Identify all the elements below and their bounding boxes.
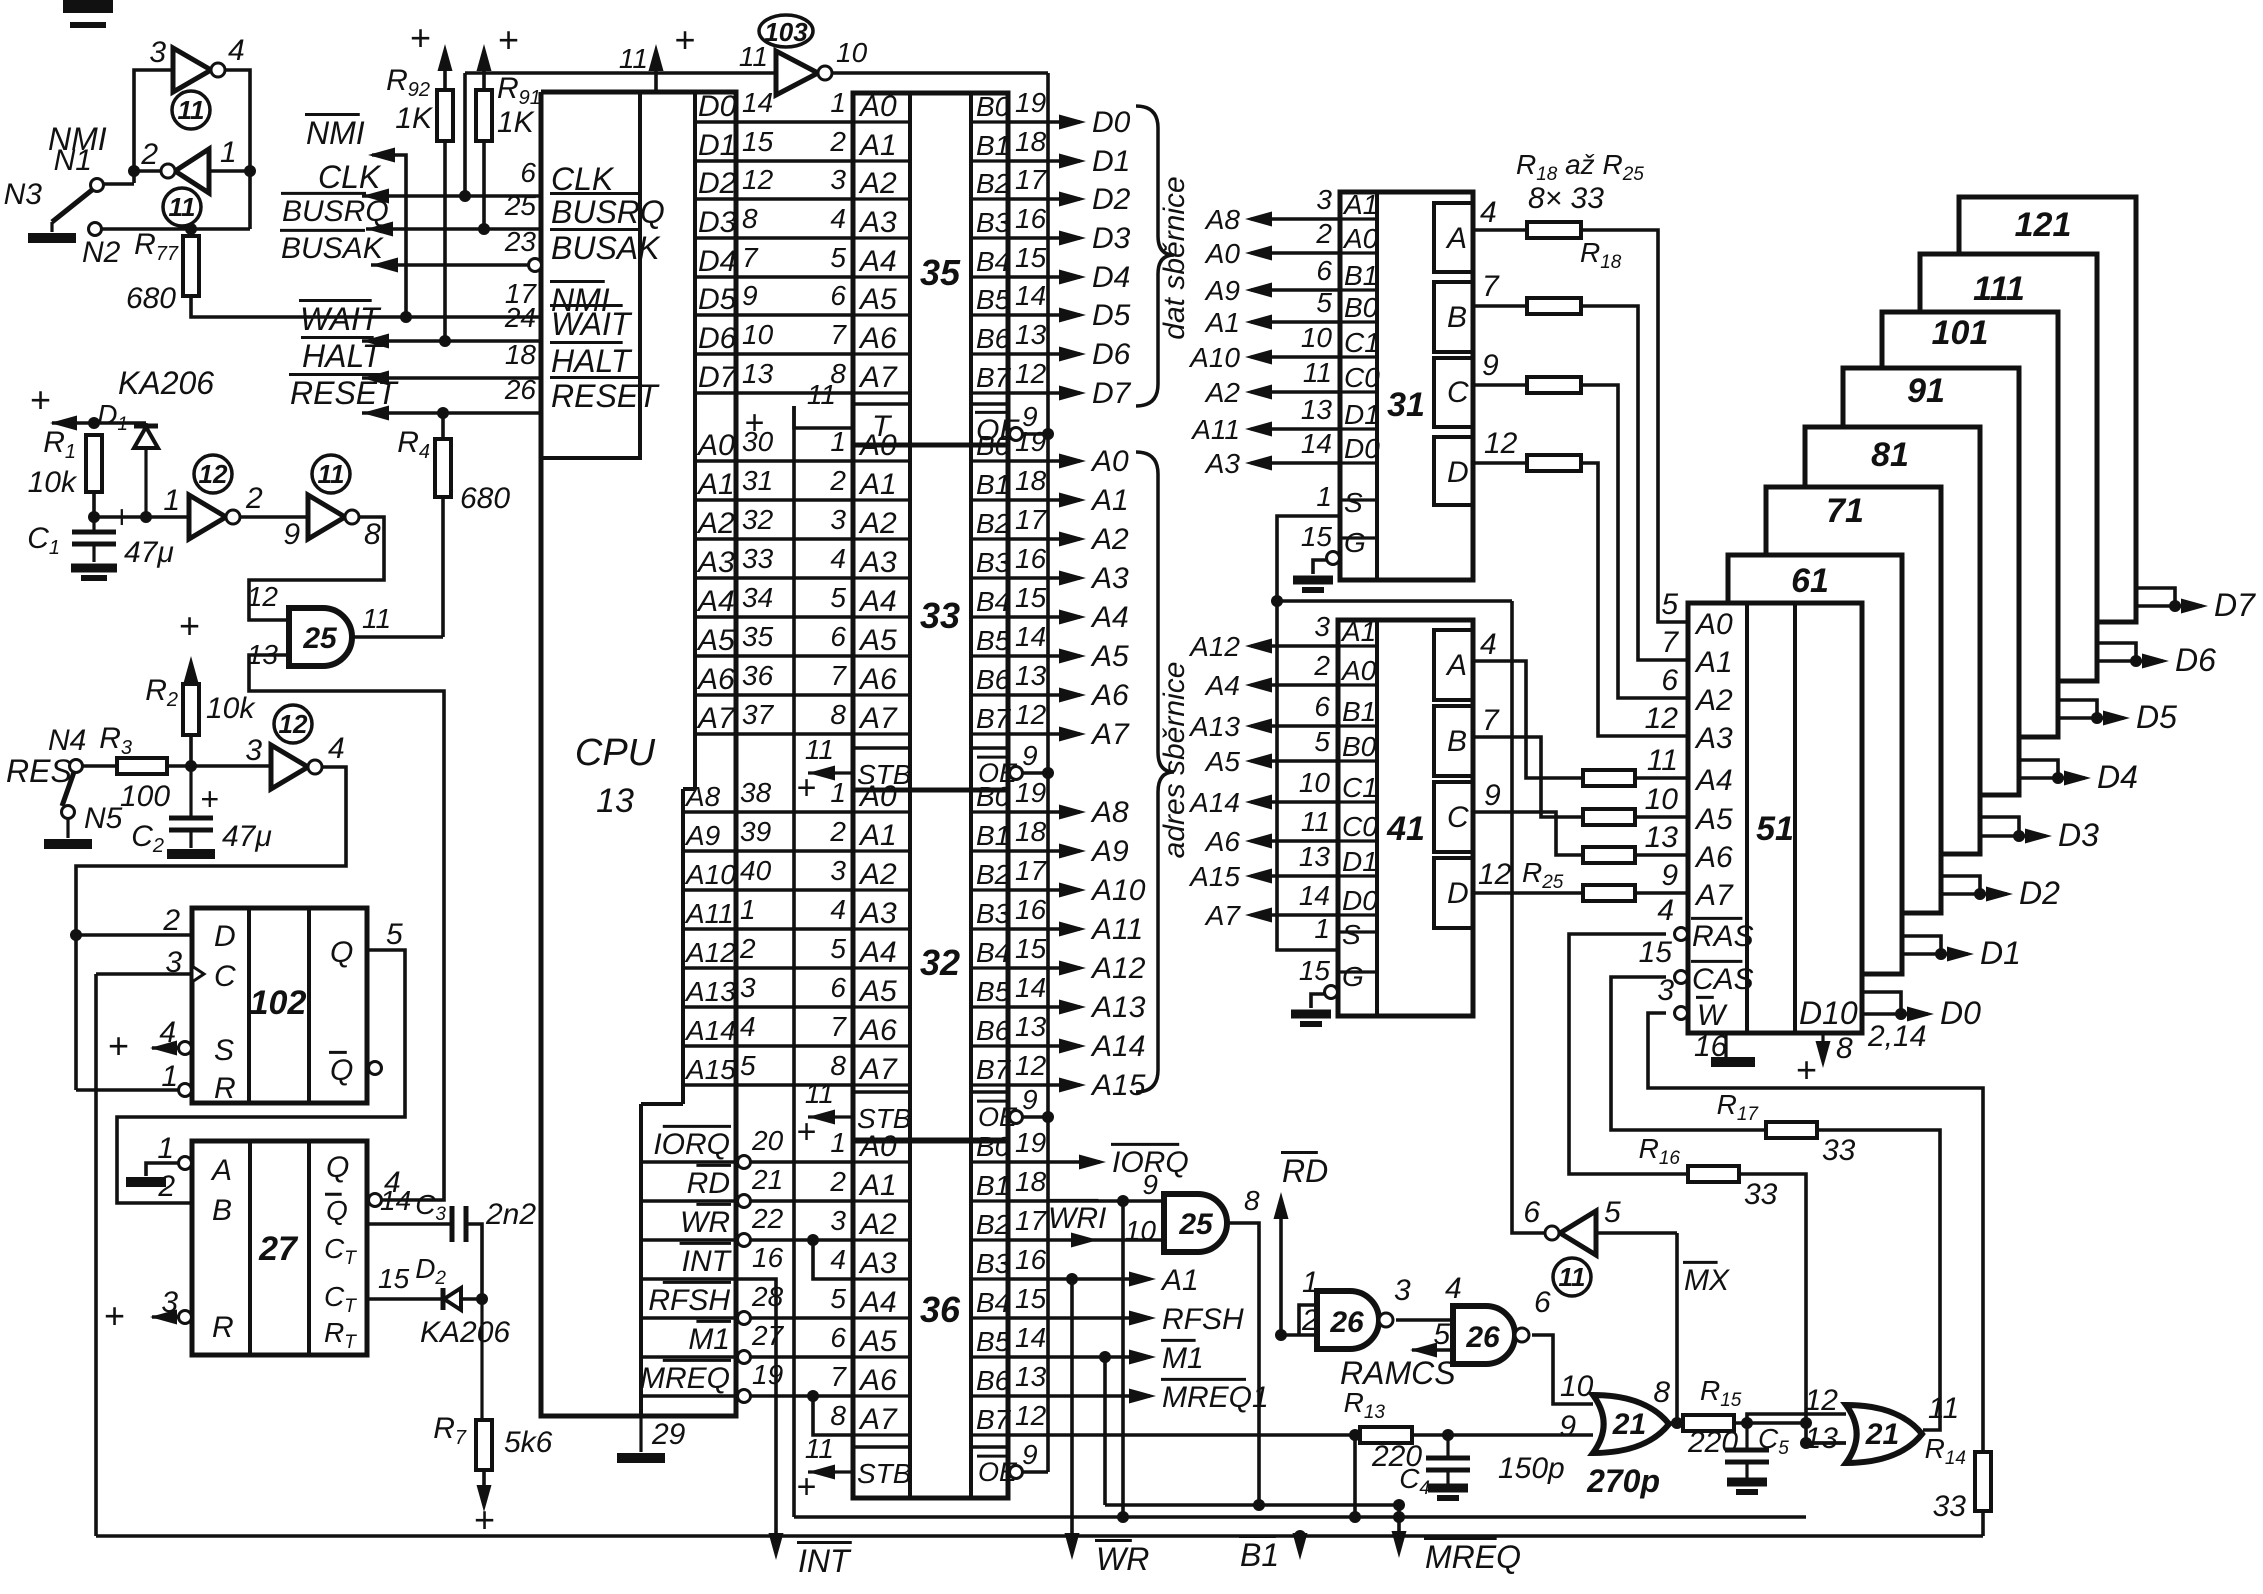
capacitor C1 47u <box>92 517 95 532</box>
DRAM chip 51 box <box>1688 603 1862 1033</box>
svg-text:9: 9 <box>1484 779 1501 812</box>
svg-text:A2: A2 <box>1204 377 1241 408</box>
svg-text:D0: D0 <box>1344 433 1380 464</box>
svg-text:A1: A1 <box>1090 484 1129 517</box>
svg-text:A1: A1 <box>1694 646 1733 679</box>
wire addr CPU to buffer 33 <box>736 498 853 502</box>
svg-text:S: S <box>1344 487 1363 518</box>
svg-text:11: 11 <box>1559 1262 1586 1292</box>
svg-text:N4: N4 <box>48 724 86 757</box>
svg-text:5: 5 <box>740 1050 756 1081</box>
wire CLK to inverter 103 vertical <box>463 73 467 196</box>
svg-text:5: 5 <box>830 582 846 613</box>
wire data output D5 <box>2058 700 2097 718</box>
svg-text:G: G <box>1344 527 1366 558</box>
resistor R7 5k6 <box>480 1299 483 1420</box>
svg-text:A5: A5 <box>858 1325 897 1358</box>
svg-text:A3: A3 <box>696 546 735 579</box>
wire OE enable vertical <box>1046 73 1050 1472</box>
svg-text:3: 3 <box>740 972 756 1003</box>
svg-text:31: 31 <box>742 465 773 496</box>
svg-text:1: 1 <box>830 777 846 808</box>
svg-text:11: 11 <box>739 41 768 72</box>
svg-text:A12: A12 <box>1090 952 1146 985</box>
wire addr CPU to buffer 32 <box>733 849 853 853</box>
svg-text:A7: A7 <box>858 1053 898 1086</box>
svg-text:T: T <box>872 410 893 443</box>
svg-text:2: 2 <box>829 465 846 496</box>
svg-text:680: 680 <box>460 482 510 515</box>
svg-text:8: 8 <box>364 518 381 551</box>
svg-text:11: 11 <box>805 1433 834 1464</box>
svg-text:D0: D0 <box>1940 995 1981 1031</box>
svg-text:1: 1 <box>1314 913 1330 944</box>
svg-text:A14: A14 <box>1090 1030 1145 1063</box>
svg-text:A7: A7 <box>1694 879 1734 912</box>
svg-text:B2: B2 <box>976 508 1011 539</box>
svg-text:13: 13 <box>1015 660 1047 691</box>
svg-text:6: 6 <box>1523 1196 1540 1229</box>
wire data CPU to buffer 35 <box>736 197 853 201</box>
svg-text:A7: A7 <box>696 702 736 735</box>
signal A15 wire <box>1251 874 1338 878</box>
bus buffer 36 box <box>853 1141 1008 1498</box>
svg-text:D0: D0 <box>1342 885 1378 916</box>
svg-text:+: + <box>796 1468 816 1506</box>
svg-text:6: 6 <box>1534 1286 1551 1319</box>
svg-text:9: 9 <box>1022 1084 1038 1115</box>
svg-text:B1: B1 <box>1342 696 1376 727</box>
wire output A8 <box>1008 810 1080 814</box>
svg-text:14: 14 <box>1299 880 1330 911</box>
svg-text:A4: A4 <box>1204 670 1240 701</box>
svg-text:D: D <box>1447 456 1469 489</box>
svg-text:7: 7 <box>830 1011 847 1042</box>
svg-text:+: + <box>1795 1049 1816 1090</box>
svg-text:16: 16 <box>1015 543 1047 574</box>
svg-text:+: + <box>796 1113 816 1151</box>
wire data CPU to buffer 35 <box>736 159 853 163</box>
supply pin 11 of CPU <box>654 52 658 92</box>
gate number circle 12 <box>274 705 312 743</box>
svg-text:13: 13 <box>1015 1361 1047 1392</box>
WRI output to AND 25 pin 10 <box>1008 1238 1164 1242</box>
svg-text:D7: D7 <box>698 361 738 394</box>
wire R7 bottom supply <box>482 1470 486 1504</box>
wire bottom rail <box>96 1534 1983 1538</box>
svg-text:A0: A0 <box>858 1130 897 1163</box>
gate number circle 12 <box>194 455 232 493</box>
wire output A0 <box>1008 459 1080 463</box>
svg-text:31: 31 <box>1387 386 1425 424</box>
signal A11 wire <box>1251 427 1340 431</box>
svg-text:A7: A7 <box>858 361 898 394</box>
svg-text:B3: B3 <box>976 1248 1011 1279</box>
svg-text:C0: C0 <box>1344 362 1380 393</box>
svg-text:680: 680 <box>126 282 176 315</box>
inverter 103 <box>776 51 818 95</box>
svg-text:4: 4 <box>830 203 846 234</box>
wire output A5 <box>1008 654 1080 658</box>
svg-text:100: 100 <box>120 780 170 813</box>
wire data output D4 <box>2019 760 2058 778</box>
svg-text:A5: A5 <box>1694 803 1733 836</box>
OR gate 21a (10,9 -> 8) <box>1593 1395 1669 1453</box>
svg-text:A0: A0 <box>1340 655 1377 686</box>
diode D2 KA206 <box>441 1288 446 1310</box>
svg-text:4: 4 <box>1445 1272 1462 1305</box>
svg-text:C: C <box>1447 801 1469 834</box>
CPU pin 29 ground <box>639 1416 642 1452</box>
svg-text:D6: D6 <box>2175 642 2216 678</box>
svg-text:71: 71 <box>1826 492 1864 530</box>
wire addr CPU to buffer 32 <box>733 1044 853 1048</box>
svg-text:RES: RES <box>6 753 72 789</box>
svg-text:36: 36 <box>742 660 774 691</box>
svg-text:adres sběrnice: adres sběrnice <box>1158 662 1191 859</box>
svg-text:7: 7 <box>830 660 847 691</box>
svg-text:28: 28 <box>751 1281 784 1312</box>
svg-text:A6: A6 <box>858 1364 897 1397</box>
svg-text:8: 8 <box>1244 1185 1260 1216</box>
wire addr CPU to buffer 32 <box>733 888 853 892</box>
signal A3 wire <box>1251 461 1340 465</box>
wire N2 row <box>101 227 250 231</box>
buffer 35 T cell <box>853 402 910 406</box>
capacitor C4 150p <box>1446 1435 1449 1458</box>
svg-text:D6: D6 <box>1092 338 1131 371</box>
svg-text:INT: INT <box>798 1543 852 1579</box>
svg-text:4: 4 <box>1657 894 1674 927</box>
wire output D2 <box>1008 197 1080 201</box>
svg-text:12: 12 <box>1645 702 1679 735</box>
svg-text:RFSH: RFSH <box>648 1284 730 1317</box>
svg-text:A4: A4 <box>858 585 897 618</box>
svg-text:D0: D0 <box>698 90 737 123</box>
wire output D0 <box>1008 120 1080 124</box>
svg-text:16: 16 <box>1015 1244 1047 1275</box>
DRAM chip 91 <box>1843 368 2019 795</box>
svg-text:220: 220 <box>1687 1426 1738 1459</box>
svg-text:B3: B3 <box>976 898 1011 929</box>
svg-text:A2: A2 <box>858 1208 897 1241</box>
svg-text:15: 15 <box>1015 1283 1047 1314</box>
svg-text:A13: A13 <box>1090 991 1146 1024</box>
svg-text:5: 5 <box>830 242 846 273</box>
svg-text:14: 14 <box>1015 280 1046 311</box>
resistor R13 220 <box>1360 1427 1412 1443</box>
svg-text:1: 1 <box>1316 481 1332 512</box>
wire data output D3 <box>1980 817 2019 836</box>
svg-text:18: 18 <box>1015 465 1047 496</box>
svg-text:81: 81 <box>1871 436 1909 474</box>
svg-text:15: 15 <box>1015 933 1047 964</box>
svg-text:IORQ: IORQ <box>653 1128 730 1161</box>
svg-text:16: 16 <box>1015 203 1047 234</box>
svg-text:RESET: RESET <box>551 378 660 414</box>
wire addr CPU to buffer 33 <box>736 615 853 619</box>
svg-text:2: 2 <box>829 816 846 847</box>
svg-text:15: 15 <box>378 1263 410 1294</box>
svg-text:A14: A14 <box>1188 787 1240 818</box>
svg-text:102: 102 <box>250 984 307 1022</box>
wire output A9 <box>1008 849 1080 853</box>
svg-text:7: 7 <box>1482 270 1500 303</box>
wire output D6 <box>1008 352 1080 356</box>
svg-text:37: 37 <box>742 699 775 730</box>
svg-text:12: 12 <box>247 581 279 612</box>
svg-text:B: B <box>212 1194 232 1227</box>
svg-text:A12: A12 <box>1188 631 1240 662</box>
svg-text:RESET: RESET <box>290 375 399 411</box>
wire data CPU to buffer 35 <box>736 275 853 279</box>
svg-text:D7: D7 <box>2214 587 2256 623</box>
svg-text:2: 2 <box>162 904 180 937</box>
svg-text:RFSH: RFSH <box>1162 1303 1244 1336</box>
buffer 36 STB cell <box>853 1445 910 1449</box>
wire R16 to R15 node <box>1739 1174 1846 1443</box>
svg-text:A11: A11 <box>684 898 734 929</box>
svg-text:A15: A15 <box>1090 1069 1146 1102</box>
svg-text:CLK: CLK <box>551 161 615 197</box>
svg-text:13: 13 <box>1301 394 1333 425</box>
svg-text:+: + <box>497 19 518 60</box>
svg-text:6: 6 <box>830 1322 846 1353</box>
svg-text:INT: INT <box>682 1245 733 1278</box>
wire M1 to buffer <box>750 1355 853 1359</box>
svg-text:21: 21 <box>1612 1408 1646 1441</box>
svg-text:33: 33 <box>1933 1490 1967 1523</box>
svg-text:27: 27 <box>751 1320 785 1351</box>
buffer 32 STB cell <box>853 1090 910 1094</box>
svg-text:B5: B5 <box>976 284 1011 315</box>
svg-text:A3: A3 <box>1090 562 1129 595</box>
svg-text:47μ: 47μ <box>222 820 272 853</box>
svg-text:A2: A2 <box>858 858 897 891</box>
wire addr CPU to buffer 32 <box>733 1005 853 1009</box>
svg-text:8: 8 <box>830 1400 846 1431</box>
ground of N5 <box>44 839 92 849</box>
svg-text:WAIT: WAIT <box>551 306 633 342</box>
svg-text:N2: N2 <box>82 236 121 269</box>
svg-text:+: + <box>103 1295 124 1336</box>
svg-text:RD: RD <box>687 1167 730 1200</box>
svg-text:29: 29 <box>651 1418 686 1451</box>
signal A7 wire <box>1251 913 1338 917</box>
svg-text:MX: MX <box>1684 1264 1730 1297</box>
inverter 11d (6-5) <box>1560 1211 1596 1255</box>
svg-text:MREQ: MREQ <box>640 1362 730 1395</box>
RFSH output <box>1008 1316 1150 1320</box>
svg-text:A0: A0 <box>1342 223 1379 254</box>
svg-text:A4: A4 <box>858 1286 897 1319</box>
svg-text:2: 2 <box>829 126 846 157</box>
svg-text:12: 12 <box>1015 699 1047 730</box>
svg-text:A2: A2 <box>858 507 897 540</box>
svg-text:11: 11 <box>619 43 648 74</box>
svg-text:14: 14 <box>380 1185 411 1216</box>
svg-text:M1: M1 <box>1162 1342 1204 1375</box>
OR gate 21b (12,13 -> 11) <box>1846 1405 1922 1463</box>
wire addr CPU to buffer 33 <box>736 654 853 658</box>
svg-text:HALT: HALT <box>302 338 384 374</box>
svg-text:8: 8 <box>830 1050 846 1081</box>
wire OE pin <box>1023 432 1048 436</box>
signal A12 wire <box>1251 644 1338 648</box>
svg-text:A2: A2 <box>1694 684 1733 717</box>
svg-text:40: 40 <box>740 855 772 886</box>
wire left frame vertical <box>94 974 98 1536</box>
svg-text:KA206: KA206 <box>118 365 214 401</box>
svg-text:10: 10 <box>1645 783 1679 816</box>
svg-text:CLK: CLK <box>318 159 382 195</box>
svg-text:+: + <box>473 1499 494 1540</box>
svg-text:D1: D1 <box>1342 846 1378 877</box>
svg-text:15: 15 <box>1639 936 1673 969</box>
FF102 Q-bar stub <box>369 1062 382 1075</box>
buffer 33 STB cell <box>853 746 910 750</box>
svg-text:12: 12 <box>1478 858 1512 891</box>
svg-text:A4: A4 <box>1090 601 1129 634</box>
svg-text:B7: B7 <box>976 703 1012 734</box>
wire addr CPU to buffer 33 <box>736 576 853 580</box>
wire mux S select line <box>1277 599 1512 603</box>
svg-text:A1: A1 <box>858 468 897 501</box>
wire inverter 11d input from MX <box>1596 1231 1677 1235</box>
svg-text:C: C <box>1447 376 1469 409</box>
svg-text:NMI: NMI <box>48 121 107 157</box>
svg-text:1: 1 <box>220 136 237 169</box>
svg-text:10: 10 <box>1560 1370 1594 1403</box>
svg-text:9: 9 <box>1142 1169 1158 1200</box>
svg-text:21: 21 <box>751 1164 783 1195</box>
wire B7 junction down <box>1353 1435 1357 1517</box>
svg-text:S: S <box>1342 919 1361 950</box>
wire addr CPU to buffer 33 <box>736 537 853 541</box>
svg-text:D5: D5 <box>1092 299 1131 332</box>
capacitor C2 47u <box>189 766 192 818</box>
svg-text:A5: A5 <box>858 975 897 1008</box>
svg-text:9: 9 <box>1022 401 1038 432</box>
svg-text:N5: N5 <box>84 802 123 835</box>
wire NAND 26a out to 26b in 4 <box>1396 1318 1453 1322</box>
svg-text:5: 5 <box>386 918 403 951</box>
CPU left label box <box>541 92 640 458</box>
svg-text:Q: Q <box>330 936 353 969</box>
svg-text:39: 39 <box>740 816 771 847</box>
wire data output D2 <box>1941 876 1980 894</box>
svg-text:35: 35 <box>742 621 774 652</box>
svg-text:5: 5 <box>1433 1318 1450 1351</box>
signal A6 wire <box>1251 839 1338 843</box>
svg-text:STB: STB <box>857 759 911 790</box>
svg-text:A3: A3 <box>858 1247 897 1280</box>
svg-text:16: 16 <box>1015 894 1047 925</box>
wire data CPU to buffer 35 <box>736 236 853 240</box>
svg-text:dat sběrnice: dat sběrnice <box>1158 176 1191 339</box>
node N5 <box>62 806 75 819</box>
DRAM chip 61 <box>1728 555 1902 974</box>
svg-text:3: 3 <box>830 855 846 886</box>
svg-text:18: 18 <box>505 339 537 370</box>
svg-text:35: 35 <box>920 252 961 293</box>
svg-text:A5: A5 <box>696 624 735 657</box>
svg-text:34: 34 <box>742 582 773 613</box>
buffer 32 STB arrow <box>808 1115 853 1118</box>
svg-text:2: 2 <box>739 933 756 964</box>
wire addr CPU to buffer 33 <box>736 693 853 697</box>
svg-text:A15: A15 <box>1188 861 1240 892</box>
signal A9 wire <box>1251 288 1340 292</box>
svg-text:4: 4 <box>328 732 345 765</box>
svg-text:B6: B6 <box>976 664 1011 695</box>
svg-text:+: + <box>200 781 219 817</box>
wire ctrl CPU to buffer 36 <box>750 1238 853 1242</box>
svg-text:A1: A1 <box>1204 307 1240 338</box>
inverter 12b (pins 3-4) <box>271 745 308 789</box>
svg-text:RAMCS: RAMCS <box>1340 1355 1456 1391</box>
wire addr CPU to buffer 32 <box>733 810 853 814</box>
resistor R4 680 <box>441 437 445 441</box>
svg-text:A11: A11 <box>1190 414 1240 445</box>
svg-text:A7: A7 <box>1090 718 1130 751</box>
svg-text:5: 5 <box>1316 287 1332 318</box>
bus buffer 35 box <box>853 93 1008 445</box>
wire output D1 <box>1008 159 1080 163</box>
svg-text:N3: N3 <box>4 178 43 211</box>
svg-text:32: 32 <box>742 504 774 535</box>
svg-text:13: 13 <box>596 782 634 820</box>
svg-text:61: 61 <box>1791 562 1829 600</box>
svg-text:+: + <box>674 19 695 60</box>
wire output A12 <box>1008 966 1080 970</box>
svg-text:C1: C1 <box>1342 772 1378 803</box>
gate number circle 11 <box>1553 1258 1591 1296</box>
svg-text:S: S <box>214 1034 234 1067</box>
wire R91 top supply <box>482 52 486 90</box>
svg-text:15: 15 <box>1299 955 1331 986</box>
buffer 36 OE cell <box>971 1445 1008 1449</box>
DRAM chip 121 <box>1959 197 2136 622</box>
wire B1 vertical <box>1121 1201 1125 1517</box>
gate number circle 11 <box>163 188 201 226</box>
svg-text:A1: A1 <box>858 1169 897 1202</box>
svg-text:RAS: RAS <box>1692 920 1754 953</box>
wire output D5 <box>1008 313 1080 317</box>
svg-text:A3: A3 <box>858 206 897 239</box>
svg-text:BUSAK: BUSAK <box>551 230 661 266</box>
wire R92 bottom to WAIT <box>443 141 447 341</box>
svg-text:33: 33 <box>742 543 774 574</box>
svg-text:12: 12 <box>1015 1400 1047 1431</box>
wire addr CPU to buffer 33 <box>736 459 853 463</box>
svg-text:HALT: HALT <box>551 343 633 379</box>
wire NAND 26b output to OR 21a <box>1532 1335 1593 1404</box>
svg-text:B3: B3 <box>976 207 1011 238</box>
wire R15 right node <box>1734 1421 1806 1425</box>
svg-text:A8: A8 <box>1090 796 1129 829</box>
wire data CPU to buffer 35 <box>736 120 853 124</box>
svg-text:1: 1 <box>740 894 756 925</box>
svg-text:10k: 10k <box>206 692 256 725</box>
svg-text:B2: B2 <box>976 168 1011 199</box>
wire output A4 <box>1008 615 1080 619</box>
wire OE pin <box>1023 1470 1048 1474</box>
wire output A2 <box>1008 537 1080 541</box>
svg-text:7: 7 <box>830 319 847 350</box>
svg-text:13: 13 <box>1645 821 1679 854</box>
wire CAS to R17 <box>1611 977 1766 1130</box>
